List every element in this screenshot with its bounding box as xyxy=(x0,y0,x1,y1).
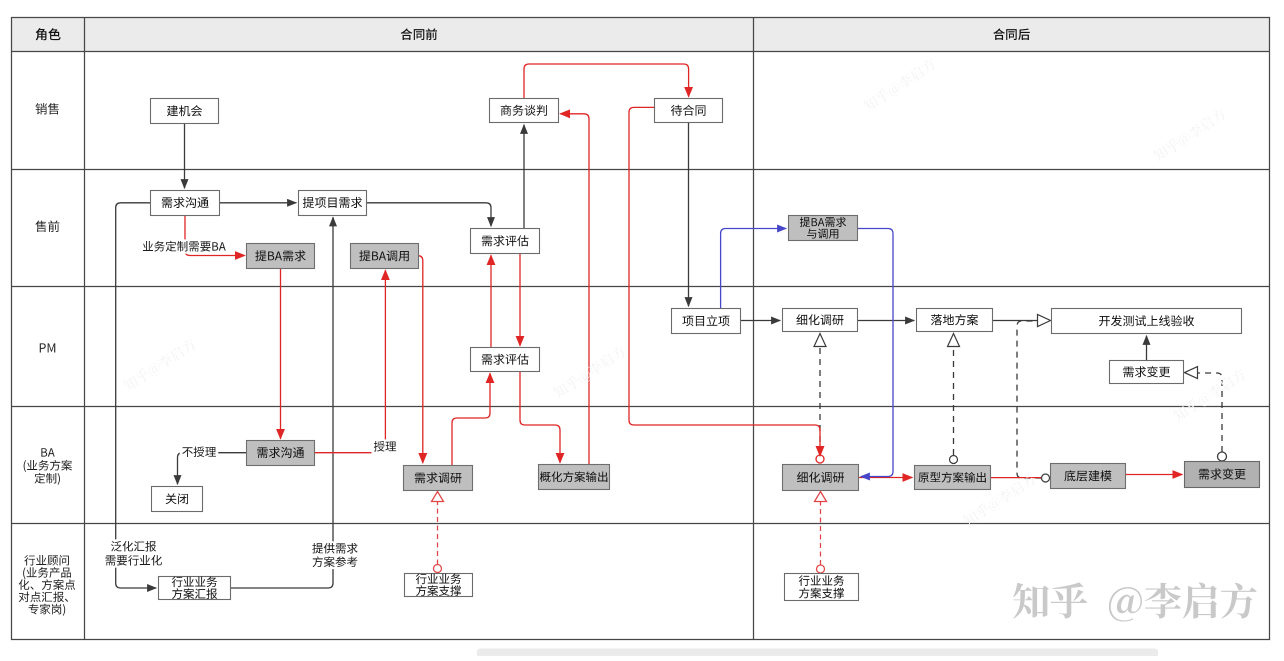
wire 落地方案→开发测试上线验收 xyxy=(993,320,1038,322)
wire 细化调研(BA)→原型方案输出 xyxy=(859,477,912,479)
box 需求评估(售前) xyxy=(471,229,540,254)
wire 提BA需求与调用→细化调研(BA) xyxy=(858,229,893,477)
circle start 需求变更(BA) top xyxy=(1218,452,1227,461)
bottom page strip xyxy=(477,649,1158,658)
hollow arrow into 开发测试上线验收 xyxy=(1038,315,1051,327)
wire 需求沟通(售前)→提BA需求 xyxy=(185,216,245,256)
box 细化调研(BA) xyxy=(783,465,859,491)
wire 概化方案输出→商务谈判 xyxy=(560,114,589,464)
hollow arrow into 细化调研(PM) xyxy=(814,334,826,347)
lane divider 4 xyxy=(12,523,1270,525)
label 泛化汇报需要行业化 xyxy=(109,539,159,553)
wire 需求评估(售前)→需求评估(PM) xyxy=(519,254,521,346)
box 需求评估(PM) xyxy=(471,348,540,372)
lane divider 3 xyxy=(12,406,1270,408)
box 提项目需求 xyxy=(299,191,367,216)
wire 提BA需求→需求沟通(BA) xyxy=(280,269,282,439)
wire 需求沟通(BA)→提BA调用 xyxy=(315,270,385,453)
box 需求变更(BA) xyxy=(1185,462,1260,488)
box 需求变更(PM) xyxy=(1110,361,1184,384)
contract column divider xyxy=(753,18,755,640)
hollow red arrow into 细化调研(BA) xyxy=(815,492,827,502)
wire 行业业务方案支撑R⇢细化调研(BA) xyxy=(820,502,822,565)
box 需求沟通(BA) xyxy=(247,441,315,466)
wire 需求变更(PM)→开发测试上线验收 xyxy=(1146,336,1148,360)
circle start 底层建模 left xyxy=(1042,474,1050,482)
wire 需求评估(PM)→需求评估(售前) xyxy=(490,255,492,347)
wire 需求调研→需求评估(PM) xyxy=(452,373,490,465)
role column divider xyxy=(84,18,86,640)
wire 细化调研(BA)⇢细化调研(PM) xyxy=(819,347,821,453)
box 需求调研 xyxy=(404,466,473,491)
label 业务定制需要BA xyxy=(140,239,228,253)
wire 需求评估(PM)→概化方案输出 xyxy=(520,372,560,463)
box 提BA调用 xyxy=(351,244,419,269)
wire 底层建模⇢开发测试上线验收 xyxy=(1017,321,1042,478)
wire 项目立项→提BA需求与调用 xyxy=(721,229,787,309)
wire 原型方案输出→底层建模 xyxy=(991,477,1041,479)
box 项目立项 xyxy=(672,309,741,334)
label 不授理 xyxy=(180,445,219,459)
hollow arrow into 需求变更(PM) xyxy=(1185,367,1198,379)
box 行业业务方案汇报 xyxy=(159,577,231,600)
box 细化调研(PM) xyxy=(783,309,858,332)
wire 需求变更(BA)⇢需求变更(PM) xyxy=(1198,373,1222,452)
wire 需求沟通(售前)→行业业务方案汇报 xyxy=(116,203,157,588)
wire 提BA调用→需求调研 xyxy=(418,256,423,463)
wire 建机会→需求沟通 xyxy=(184,124,186,188)
box 底层建模 xyxy=(1051,464,1126,489)
box 开发测试上线验收 xyxy=(1052,309,1242,334)
wire 待合同→细化调研(BA) xyxy=(629,107,820,456)
box 需求沟通(售前) xyxy=(151,191,220,216)
box 商务谈判 xyxy=(490,99,559,123)
box 关闭 xyxy=(152,487,203,512)
header row fill xyxy=(12,18,1270,52)
wire 提项目需求→需求评估(售前) xyxy=(367,203,491,227)
box 落地方案 xyxy=(917,309,993,332)
circle start 原型方案输出 top xyxy=(950,456,958,464)
wire 商务谈判→待合同 xyxy=(524,64,689,98)
label 提供需求方案参考 xyxy=(310,541,360,555)
lane divider 2 xyxy=(12,286,1270,288)
wire 需求评估(售前)→商务谈判 xyxy=(523,125,525,228)
box 建机会 xyxy=(151,99,219,124)
wire 需求沟通→提项目需求 xyxy=(220,202,296,204)
wire 原型方案输出⇢落地方案 xyxy=(953,347,955,456)
wire 项目立项→细化调研(PM) xyxy=(741,320,780,322)
box 待合同 xyxy=(655,99,723,123)
hollow red arrow into 需求调研 xyxy=(432,492,444,502)
wire 需求沟通(BA)→关闭 xyxy=(178,453,247,485)
box 概化方案输出 xyxy=(539,465,610,490)
box 行业业务方案支撑R xyxy=(785,574,859,601)
box 原型方案输出 xyxy=(915,466,991,490)
wire 行业业务方案支撑L⇢需求调研 xyxy=(437,502,439,565)
box 行业业务方案支撑L xyxy=(405,574,473,597)
box 提BA需求 xyxy=(247,244,315,269)
label 授理 xyxy=(372,439,399,453)
lane divider 1 xyxy=(12,169,1270,171)
wire 底层建模→需求变更(BA) xyxy=(1126,474,1182,476)
wire 待合同→项目立项 xyxy=(688,123,690,306)
red circle at 细化调研(BA) top xyxy=(816,455,824,463)
red circle at 行业业务方案支撑L top xyxy=(434,565,442,573)
hollow arrow into 落地方案 xyxy=(948,334,960,347)
wire 行业业务方案汇报→提项目需求 xyxy=(231,217,333,588)
header bottom line xyxy=(12,51,1270,53)
wire 细化调研(PM)→落地方案 xyxy=(858,320,914,322)
red circle at 行业业务方案支撑R top xyxy=(817,565,825,573)
box 提BA需求与调用 xyxy=(789,216,858,241)
